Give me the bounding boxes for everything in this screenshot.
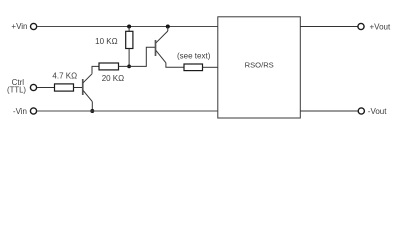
wire see-text resistor to block bbox=[203, 66, 218, 68]
wire Q2 emitter to see-text resistor bbox=[166, 63, 184, 68]
node junction top rail at Q2 collector bbox=[166, 25, 170, 29]
wire Ctrl to 4.7K bbox=[37, 87, 55, 89]
svg-text:20 KΩ: 20 KΩ bbox=[102, 74, 124, 83]
svg-text:+Vout: +Vout bbox=[370, 22, 391, 31]
svg-text:RSO/RS: RSO/RS bbox=[245, 61, 274, 70]
svg-text:10 KΩ: 10 KΩ bbox=[95, 37, 117, 46]
terminal -Vout bbox=[358, 108, 364, 114]
terminal +Vout bbox=[358, 23, 364, 29]
terminal +Vin bbox=[30, 23, 36, 29]
resistor (see text) bbox=[184, 64, 203, 71]
wire 10K top stub bbox=[128, 27, 130, 32]
terminal -Vin bbox=[30, 108, 36, 114]
transistor Q1 bbox=[83, 74, 93, 102]
wire +Vout bbox=[300, 26, 357, 28]
wire 10K bottom bbox=[128, 49, 130, 67]
wire 20K to Q2 base bbox=[119, 47, 156, 66]
node junction -Vin rail bbox=[90, 109, 94, 113]
svg-text:(TTL): (TTL) bbox=[7, 86, 26, 95]
svg-text:+Vin: +Vin bbox=[11, 22, 27, 31]
terminal Ctrl bbox=[30, 84, 36, 90]
svg-text:4.7 KΩ: 4.7 KΩ bbox=[52, 71, 77, 80]
wire Q2 collector stub bbox=[167, 27, 169, 32]
svg-text:-Vin: -Vin bbox=[13, 107, 27, 116]
svg-text:-Vout: -Vout bbox=[368, 107, 387, 116]
resistor 10 KOhm bbox=[126, 31, 133, 48]
wire Q1 emitter down bbox=[91, 102, 93, 111]
wire 4.7K to Q1 base bbox=[74, 87, 83, 89]
wire -Vin rail bbox=[37, 110, 218, 112]
svg-text:(see text): (see text) bbox=[177, 51, 211, 60]
wire -Vout bbox=[300, 110, 358, 112]
transistor Q2 bbox=[156, 31, 168, 63]
resistor 20 KOhm bbox=[99, 63, 119, 70]
wire +Vin rail bbox=[37, 26, 218, 28]
block RSO/RS bbox=[218, 17, 300, 118]
resistor 4.7 KOhm bbox=[55, 84, 74, 91]
wire Q1 collector to 20K bbox=[92, 66, 99, 73]
node junction top rail at 10K bbox=[127, 25, 131, 29]
node junction 20K line bbox=[127, 65, 131, 69]
